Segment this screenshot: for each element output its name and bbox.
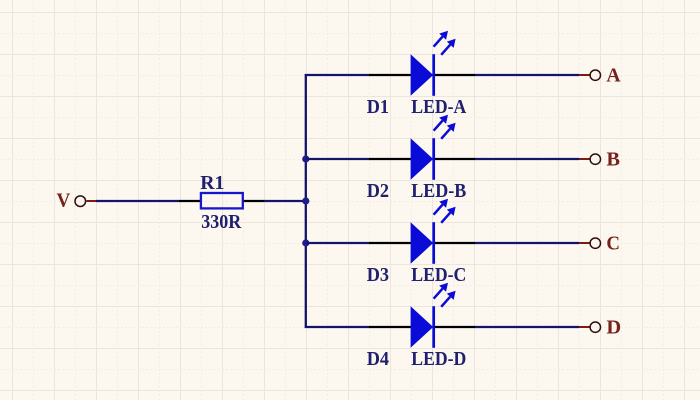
LED D2 symbol [411, 115, 456, 180]
label D3 [367, 264, 389, 286]
svg-text:D2: D2 [367, 180, 389, 202]
svg-text:A: A [606, 65, 621, 87]
svg-text:330R: 330R [201, 211, 241, 233]
value 330R [201, 211, 241, 233]
svg-text:D1: D1 [367, 96, 389, 118]
svg-text:LED-B: LED-B [411, 180, 466, 202]
svg-text:D: D [606, 317, 621, 339]
row D wire bus to LED [305, 326, 370, 328]
label LED-B [411, 180, 466, 202]
svg-text:C: C [606, 233, 620, 255]
junction node R1 feed [302, 197, 309, 204]
LED D1 symbol [411, 31, 456, 96]
wire LED to terminal C [475, 242, 579, 244]
wire LED to terminal A [475, 74, 579, 76]
resistor R1 [179, 193, 264, 208]
row B wire bus to LED [306, 158, 370, 160]
terminal B [579, 149, 620, 171]
svg-text:D4: D4 [367, 348, 389, 370]
label D1 [367, 96, 389, 118]
wire LED to terminal D [475, 326, 579, 328]
diode D1 pins [369, 74, 476, 76]
svg-text:R1: R1 [200, 172, 224, 194]
label LED-A [411, 96, 466, 118]
LED D3 symbol [411, 199, 456, 264]
svg-text:D3: D3 [367, 264, 389, 286]
label LED-C [411, 264, 466, 286]
label D4 [367, 348, 389, 370]
terminal V [57, 190, 97, 212]
label D2 [367, 180, 389, 202]
svg-text:LED-A: LED-A [411, 96, 466, 118]
row C wire bus to LED [306, 242, 370, 244]
diode D4 pins [369, 326, 476, 328]
svg-text:LED-C: LED-C [411, 264, 466, 286]
terminal D [579, 317, 621, 339]
svg-text:B: B [606, 149, 620, 171]
bus vertical wire [305, 74, 307, 328]
wire LED to terminal B [475, 158, 579, 160]
label R1 [200, 172, 224, 194]
terminal A [579, 65, 621, 87]
terminal C [579, 233, 620, 255]
svg-text:V: V [57, 190, 71, 212]
wire R1 to bus [264, 200, 306, 202]
diode D2 pins [369, 158, 476, 160]
junction node C [302, 239, 309, 246]
label LED-D [411, 348, 466, 370]
row A wire bus to LED [305, 74, 370, 76]
diode D3 pins [369, 242, 476, 244]
wire V to R1 [96, 200, 180, 202]
svg-text:LED-D: LED-D [411, 348, 466, 370]
junction node B [302, 155, 309, 162]
LED D4 symbol [411, 283, 456, 348]
